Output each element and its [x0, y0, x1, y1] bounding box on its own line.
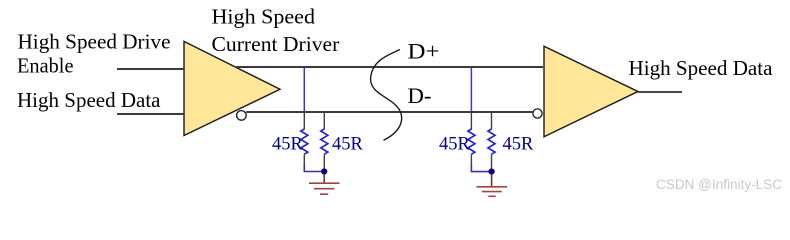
- wire: D+ net: [236, 66, 543, 68]
- ground GND1: [309, 183, 340, 194]
- op-amp U2 receiver triangle: [544, 46, 638, 137]
- cable break squiggle: [371, 50, 402, 141]
- svg-text:45R: 45R: [272, 135, 304, 155]
- wire: R3 bottom lead: [470, 154, 472, 164]
- svg-text:CSDN @Infinity-LSC: CSDN @Infinity-LSC: [656, 177, 782, 192]
- svg-text:High Speed Data: High Speed Data: [629, 56, 774, 80]
- svg-text:Current Driver: Current Driver: [212, 32, 340, 56]
- svg-text:45R: 45R: [503, 135, 535, 155]
- resistor R3 45R: [468, 129, 475, 154]
- resistor R2 45R: [321, 129, 328, 154]
- svg-text:D+: D+: [408, 38, 440, 63]
- resistor R1 45R: [301, 129, 308, 154]
- svg-text:Enable: Enable: [17, 53, 74, 77]
- wire: R1 top lead: [303, 113, 305, 130]
- ground GND2 stub: [491, 174, 493, 187]
- wire: D+ drop to R3 (blue): [470, 67, 472, 113]
- wire: High Speed Data input: [117, 113, 184, 115]
- svg-text:D-: D-: [408, 83, 432, 108]
- svg-text:High Speed Data: High Speed Data: [17, 88, 161, 112]
- wire: D+ drop to R1 (blue): [303, 67, 305, 113]
- svg-text:High Speed: High Speed: [212, 4, 316, 28]
- wire: R2 bottom lead: [323, 154, 325, 170]
- op-amp U2 input bubble: [533, 109, 542, 118]
- wire: R4 bottom lead: [491, 154, 493, 170]
- wire: R3 top lead: [470, 113, 472, 130]
- resistor R4 45R: [488, 129, 495, 154]
- wire: receiver output High Speed Data: [638, 91, 682, 93]
- ground GND1 stub: [323, 174, 325, 184]
- svg-text:45R: 45R: [439, 135, 471, 155]
- wire: R1 to junction (navy L): [304, 164, 323, 172]
- node: left termination junction: [321, 168, 327, 174]
- wire: R4 top lead from D-: [491, 113, 493, 130]
- svg-text:High Speed Drive: High Speed Drive: [18, 30, 171, 54]
- ground GND2: [477, 187, 508, 197]
- wire: R1 bottom lead: [303, 154, 305, 164]
- node: right termination junction: [489, 169, 495, 175]
- op-amp U1 output bubble: [237, 111, 247, 121]
- wire: R2 top lead from D-: [323, 113, 325, 130]
- svg-text:45R: 45R: [332, 135, 364, 155]
- wire: D- net: [246, 111, 533, 113]
- wire: R3 to junction (navy L): [471, 164, 490, 172]
- op-amp U1 driver triangle: [184, 41, 280, 135]
- wire: High Speed Drive Enable input: [117, 68, 184, 70]
